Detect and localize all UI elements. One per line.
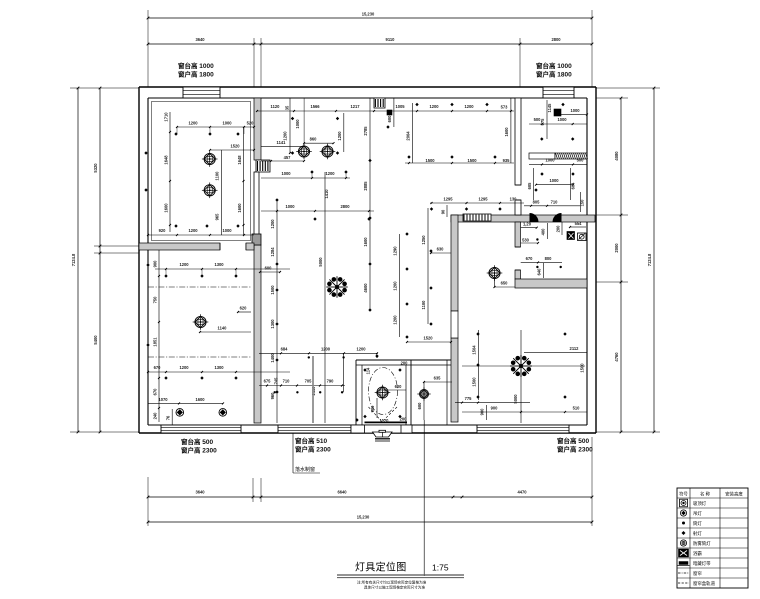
svg-text:1648: 1648 xyxy=(164,155,169,165)
svg-text:630: 630 xyxy=(437,247,445,252)
bathroom1 walls (bottom middle) xyxy=(356,360,451,425)
bath heater symbol (sq with circle) xyxy=(578,233,587,241)
dim 1140 bedroom2 xyxy=(199,326,251,334)
interior wall W4 vertical x451-458 (gray) xyxy=(451,215,458,422)
svg-text:窗台高 510: 窗台高 510 xyxy=(295,436,328,445)
svg-text:1284: 1284 xyxy=(270,247,275,257)
interior wall W2 right part xyxy=(246,243,254,250)
pendant lamp bedroom bottom-left A xyxy=(176,409,184,417)
svg-text:窗台高 500: 窗台高 500 xyxy=(181,437,214,446)
svg-text:200: 200 xyxy=(401,361,409,366)
svg-text:640: 640 xyxy=(536,268,541,276)
dim 600 xyxy=(259,266,281,274)
svg-text:775: 775 xyxy=(465,396,473,401)
dimension chain left segments 5320 / 5400 xyxy=(93,87,139,434)
svg-text:窗户高 2300: 窗户高 2300 xyxy=(295,445,331,454)
svg-text:2785: 2785 xyxy=(363,126,368,136)
svg-text:3640: 3640 xyxy=(195,490,205,495)
svg-text:710: 710 xyxy=(551,199,559,204)
dim chain hall y385 xyxy=(259,377,345,396)
dim chain bedroom2 top xyxy=(155,262,290,276)
interior wall W7 horizontal y279-288 bath suite bottom (gray) xyxy=(515,279,587,288)
ceiling lamp hall A xyxy=(296,144,312,160)
legend table xyxy=(677,488,748,588)
svg-text:1000: 1000 xyxy=(570,108,580,113)
svg-text:530: 530 xyxy=(522,238,530,243)
dims living room xyxy=(455,330,587,423)
svg-text:1300: 1300 xyxy=(214,365,224,370)
svg-text:1120: 1120 xyxy=(271,104,281,109)
electrical panel on W1 (hatched box) xyxy=(256,160,270,172)
dims shower room xyxy=(494,273,516,288)
svg-text:860: 860 xyxy=(310,137,318,142)
bath exhaust fan symbol (black sq) xyxy=(567,232,575,240)
svg-text:500: 500 xyxy=(577,158,585,163)
svg-text:1410: 1410 xyxy=(324,189,329,199)
svg-text:窗户高 1800: 窗户高 1800 xyxy=(178,70,214,79)
svg-text:安装高度: 安装高度 xyxy=(725,490,743,497)
svg-text:9110: 9110 xyxy=(386,37,396,42)
svg-text:150: 150 xyxy=(580,199,585,207)
svg-text:1120: 1120 xyxy=(380,418,390,423)
svg-text:1295: 1295 xyxy=(443,197,453,202)
top-left room inner ceiling outline xyxy=(152,102,251,241)
svg-text:1200: 1200 xyxy=(393,315,398,325)
svg-text:5000: 5000 xyxy=(318,257,323,267)
dim chain hall top y111 xyxy=(256,98,514,129)
svg-text:675: 675 xyxy=(540,118,545,126)
ceiling lamp bedroom bottom-left xyxy=(193,314,209,330)
wardrobe hatched strip top-right bedroom xyxy=(529,153,588,159)
svg-text:7124.8: 7124.8 xyxy=(71,253,76,266)
svg-text:520: 520 xyxy=(247,121,255,126)
dim vertical x277 xyxy=(270,200,277,423)
svg-text:3640: 3640 xyxy=(195,37,205,42)
svg-text:1200: 1200 xyxy=(325,171,335,176)
svg-text:1250: 1250 xyxy=(421,235,426,245)
svg-text:35: 35 xyxy=(285,105,290,110)
svg-text:名 称: 名 称 xyxy=(700,490,711,497)
interior wall W3 horizontal y215-222 (gray, top of bath suite) xyxy=(451,215,595,222)
outer wall top xyxy=(139,87,596,98)
svg-text:965: 965 xyxy=(215,213,220,221)
dimension chain top segments 3640 / 9110 / 2800 xyxy=(147,37,594,87)
window top-left (sill 1000) xyxy=(183,87,220,98)
svg-text:90: 90 xyxy=(441,209,446,214)
door swing solid quarter-circle B xyxy=(553,213,562,222)
dim 1000 right bedroom xyxy=(561,108,588,116)
svg-text:窗台高 500: 窗台高 500 xyxy=(557,436,590,445)
svg-text:920: 920 xyxy=(159,228,167,233)
window bottom-right living room (sill 500) xyxy=(477,425,569,433)
svg-text:1145: 1145 xyxy=(547,103,552,113)
svg-text:1851: 1851 xyxy=(153,337,158,347)
svg-text:4470: 4470 xyxy=(517,490,527,495)
dim chain y178 xyxy=(261,171,350,179)
notes under title xyxy=(357,580,427,590)
dim chain right bedroom y124 xyxy=(529,117,587,125)
svg-text:5320: 5320 xyxy=(93,163,98,173)
svg-text:1000: 1000 xyxy=(281,171,291,176)
svg-text:2112: 2112 xyxy=(570,346,580,351)
svg-text:1000: 1000 xyxy=(285,204,295,209)
svg-text:1500: 1500 xyxy=(467,158,477,163)
svg-text:650: 650 xyxy=(501,281,509,286)
dim inner vertical top-left room xyxy=(215,150,222,235)
svg-text:600: 600 xyxy=(387,115,392,123)
dim 90 vertical xyxy=(441,205,448,217)
dim chain bedroom2 bottom xyxy=(148,397,224,425)
dim vertical x325 long xyxy=(318,172,329,423)
dim left vertical top-left room xyxy=(164,112,172,232)
dim 630 xyxy=(430,247,451,255)
dim vertical x511 xyxy=(504,98,511,163)
label window bottom-right xyxy=(557,436,593,454)
svg-text:筒灯: 筒灯 xyxy=(693,520,702,527)
svg-text:窗台高 1000: 窗台高 1000 xyxy=(536,61,572,70)
svg-text:窗帘: 窗帘 xyxy=(693,570,702,577)
chandelier living room (snowflake) xyxy=(510,355,532,377)
svg-text:1070: 1070 xyxy=(158,397,168,402)
dim chain bedroom2 lower xyxy=(147,365,290,373)
svg-text:1200: 1200 xyxy=(179,262,189,267)
svg-text:暗藏灯带: 暗藏灯带 xyxy=(693,560,711,567)
dim chain top-left room upper xyxy=(176,121,255,135)
svg-text:200: 200 xyxy=(400,417,408,422)
svg-text:1500: 1500 xyxy=(425,158,435,163)
svg-text:1200: 1200 xyxy=(337,131,342,141)
corridor centre line x313 xyxy=(312,356,314,423)
legend symbols xyxy=(678,499,690,583)
svg-text:745: 745 xyxy=(274,377,279,385)
svg-text:1200: 1200 xyxy=(393,281,398,291)
svg-text:15,230: 15,230 xyxy=(362,12,375,17)
svg-text:1600: 1600 xyxy=(195,397,205,402)
window bottom-middle (sill 500) xyxy=(278,425,351,433)
dim chain y211 xyxy=(261,204,374,212)
svg-text:200: 200 xyxy=(556,225,561,233)
dim vertical x344 xyxy=(337,113,344,152)
svg-text:1500: 1500 xyxy=(472,377,477,387)
ceiling lamp top-left room lower xyxy=(202,183,218,199)
svg-text:935: 935 xyxy=(503,158,511,163)
ceiling lamp hall B xyxy=(320,144,336,160)
svg-text:1000: 1000 xyxy=(557,117,567,122)
dim chain right mid y164 xyxy=(529,158,587,166)
svg-text:604: 604 xyxy=(571,182,576,190)
svg-text:705: 705 xyxy=(305,379,313,384)
chandelier dining (snowflake) xyxy=(326,276,347,297)
entry door frame xyxy=(351,425,412,433)
svg-text:675: 675 xyxy=(264,379,272,384)
title 灯具定位图 1:75 xyxy=(337,561,464,578)
svg-text:6640: 6640 xyxy=(337,490,347,495)
pendant lamp bedroom bottom-left B xyxy=(219,409,227,417)
dim 860 xyxy=(303,98,334,145)
svg-text:落水制窗: 落水制窗 xyxy=(295,466,315,473)
svg-text:805: 805 xyxy=(533,199,541,204)
svg-text:1200: 1200 xyxy=(179,365,189,370)
svg-text:吸顶灯: 吸顶灯 xyxy=(693,500,707,507)
svg-text:76: 76 xyxy=(166,415,171,420)
outer wall bottom xyxy=(139,425,596,433)
svg-text:1500: 1500 xyxy=(270,285,275,295)
svg-text:1290: 1290 xyxy=(393,246,398,256)
interior wall W1 vertical lower (gray) xyxy=(252,234,261,423)
label window top-left xyxy=(178,61,214,79)
wardrobe dash-dot line B bedroom2 xyxy=(148,356,251,358)
label window bottom-middle with leader xyxy=(293,433,331,473)
svg-text:窗户高 2300: 窗户高 2300 xyxy=(181,446,217,455)
svg-text:1300: 1300 xyxy=(270,319,275,329)
svg-text:400: 400 xyxy=(540,228,545,236)
dim vertical x290 xyxy=(283,98,301,154)
dim chain y203 xyxy=(430,197,524,205)
svg-text:800: 800 xyxy=(545,256,553,261)
black box right bedroom xyxy=(547,103,561,116)
svg-text:240: 240 xyxy=(153,412,158,420)
svg-text:605: 605 xyxy=(527,182,532,190)
svg-text:114: 114 xyxy=(366,367,371,374)
ceiling lamp bathroom1 xyxy=(375,385,391,401)
svg-text:1500: 1500 xyxy=(580,363,585,373)
svg-text:注:所有有关尺寸均以现场实际定位复核为准: 注:所有有关尺寸均以现场实际定位复核为准 xyxy=(357,580,427,585)
svg-text:1000: 1000 xyxy=(545,158,555,163)
dims toilet alcove xyxy=(400,376,452,422)
outer wall left xyxy=(139,87,148,433)
entry threshold thick line xyxy=(365,421,408,423)
outer wall right xyxy=(587,87,596,433)
svg-text:4600: 4600 xyxy=(363,283,368,293)
svg-text:900: 900 xyxy=(480,408,485,416)
interior wall W5 vertical x515-521 (between dining and right bedroom) xyxy=(515,98,521,215)
dim vertical x428 xyxy=(421,208,428,324)
svg-text:1217: 1217 xyxy=(350,104,360,109)
svg-text:1200: 1200 xyxy=(321,346,331,351)
leader from entry to note xyxy=(423,420,425,576)
ceiling lamp shower room xyxy=(487,265,503,281)
label window top-right xyxy=(536,61,572,79)
svg-text:1141: 1141 xyxy=(277,140,287,145)
dim 1157 xyxy=(261,155,305,162)
svg-text:1,20: 1,20 xyxy=(523,222,532,227)
svg-text:1600: 1600 xyxy=(237,203,242,213)
interior wall W6 vertical x515-520 (gray) bath suite xyxy=(515,222,521,279)
dim verticals right mid xyxy=(527,168,585,212)
svg-text:130: 130 xyxy=(510,197,518,202)
dim 1000 right mid xyxy=(535,178,574,186)
dim vertical x399 xyxy=(393,234,400,337)
svg-text:1648: 1648 xyxy=(237,155,242,165)
svg-text:2885: 2885 xyxy=(363,181,368,191)
svg-text:1000: 1000 xyxy=(222,121,232,126)
entry porch steps xyxy=(365,425,402,441)
svg-text:灯具定位图: 灯具定位图 xyxy=(355,561,407,574)
svg-text:1100: 1100 xyxy=(421,300,426,310)
dims bathroom1 xyxy=(366,361,409,424)
svg-text:1200: 1200 xyxy=(356,346,366,351)
label window bottom-left xyxy=(181,437,217,455)
dim right vertical top-left room xyxy=(237,127,245,235)
svg-text:窗户高 1800: 窗户高 1800 xyxy=(536,70,572,79)
dim chain kitchen y163 xyxy=(405,158,514,164)
svg-text:窗户高 2300: 窗户高 2300 xyxy=(557,445,593,454)
svg-text:2800: 2800 xyxy=(340,204,350,209)
dim chain hall y353 xyxy=(259,346,378,358)
svg-text:射灯: 射灯 xyxy=(693,530,702,537)
svg-text:900: 900 xyxy=(153,260,158,268)
svg-text:1295: 1295 xyxy=(478,197,488,202)
interior wall W1 lower cased section xyxy=(254,172,259,241)
dim 620 bedroom2 xyxy=(237,306,251,314)
svg-text:4760: 4760 xyxy=(614,352,619,362)
svg-text:1566: 1566 xyxy=(310,104,320,109)
svg-text:5000: 5000 xyxy=(513,394,518,404)
svg-text:1000: 1000 xyxy=(295,119,300,129)
dimension chain right overall 7124.8 xyxy=(596,87,660,434)
svg-text:1200: 1200 xyxy=(270,219,275,229)
hatched lintel over kitchen opening xyxy=(463,214,491,221)
svg-text:600: 600 xyxy=(417,402,422,410)
svg-text:1600: 1600 xyxy=(504,127,509,137)
door swing solid quarter-circle A xyxy=(530,213,539,222)
dimension chain bottom segments 3640 / 6640 / 4470 xyxy=(147,437,594,526)
svg-text:600: 600 xyxy=(265,266,273,271)
dim vertical x547 xyxy=(540,100,547,139)
window bottom-left (sill 500) xyxy=(161,425,241,433)
svg-text:684: 684 xyxy=(281,346,289,351)
svg-text:1520: 1520 xyxy=(423,336,433,341)
svg-text:1520: 1520 xyxy=(230,144,240,149)
svg-text:吊灯: 吊灯 xyxy=(693,510,702,517)
svg-text:670: 670 xyxy=(153,388,158,396)
svg-text:1200: 1200 xyxy=(188,121,198,126)
entry door swing dashed lines xyxy=(369,407,398,422)
dim 1520 top-left room xyxy=(209,144,255,152)
dimension chain top overall 15230 xyxy=(147,10,594,87)
svg-text:1:75: 1:75 xyxy=(432,563,449,573)
svg-text:防雾筒灯: 防雾筒灯 xyxy=(693,540,711,547)
dim chain right mid y206 xyxy=(524,199,580,207)
svg-text:457: 457 xyxy=(284,155,292,160)
svg-text:符号: 符号 xyxy=(679,490,688,497)
svg-text:900: 900 xyxy=(370,405,375,413)
dim vertical x344 lower xyxy=(343,353,345,392)
svg-text:浴霸: 浴霸 xyxy=(693,550,702,557)
svg-text:5400: 5400 xyxy=(93,335,98,345)
dim tick near entry xyxy=(376,352,378,357)
svg-text:1100: 1100 xyxy=(215,171,220,181)
dim vertical bedroom2 left xyxy=(153,250,161,422)
door opening in W2 (frame lines) xyxy=(220,243,246,250)
svg-text:620: 620 xyxy=(240,306,248,311)
svg-text:1504: 1504 xyxy=(472,345,477,355)
svg-text:1000: 1000 xyxy=(549,178,559,183)
svg-text:窗台高 1000: 窗台高 1000 xyxy=(178,61,214,70)
svg-text:1600: 1600 xyxy=(363,237,368,247)
electrical panel top wall (hatched) xyxy=(374,98,392,115)
svg-text:2000: 2000 xyxy=(614,243,619,253)
svg-text:1200: 1200 xyxy=(464,104,474,109)
svg-text:7124.8: 7124.8 xyxy=(647,253,652,266)
svg-text:1200: 1200 xyxy=(188,228,198,233)
dimension chain right segments 4080 / 2000 / 4760 xyxy=(596,97,660,434)
svg-text:2800: 2800 xyxy=(551,37,561,42)
svg-text:750: 750 xyxy=(153,296,158,304)
svg-text:1200: 1200 xyxy=(429,104,439,109)
interior wall W2 horizontal y241-250 left part xyxy=(139,243,220,250)
svg-text:2004: 2004 xyxy=(406,131,411,141)
svg-text:1005: 1005 xyxy=(395,104,405,109)
dims bath3 xyxy=(521,221,586,278)
dimension chain bottom overall 15230 xyxy=(147,515,594,524)
svg-text:635: 635 xyxy=(434,376,442,381)
svg-text:510: 510 xyxy=(573,406,581,411)
svg-text:1600: 1600 xyxy=(164,203,169,213)
svg-text:900: 900 xyxy=(491,406,499,411)
svg-text:具体尺寸以施工现场核定实际尺寸为准: 具体尺寸以施工现场核定实际尺寸为准 xyxy=(364,585,425,590)
svg-text:1400: 1400 xyxy=(270,353,275,363)
wardrobe dash-dot line A bedroom2 xyxy=(148,286,251,288)
dim 1520 hall xyxy=(406,336,452,344)
bathroom1 ceiling oval (dash-dot) xyxy=(369,368,398,415)
svg-text:1140: 1140 xyxy=(218,326,228,331)
svg-text:1300: 1300 xyxy=(214,262,224,267)
svg-text:15,230: 15,230 xyxy=(357,515,370,520)
svg-text:1000: 1000 xyxy=(222,228,232,233)
interior wall W1 vertical x254-261 (gray) upper xyxy=(254,98,261,160)
svg-text:554: 554 xyxy=(575,221,583,226)
ceiling lamp toilet alcove xyxy=(417,387,430,400)
svg-text:4080: 4080 xyxy=(614,151,619,161)
dim 1141 xyxy=(261,140,304,147)
svg-text:窗帘盒轨道: 窗帘盒轨道 xyxy=(693,580,716,587)
ceiling lamp top-left room upper xyxy=(202,151,218,167)
dim vertical kitchen x412 xyxy=(406,103,413,163)
svg-text:600: 600 xyxy=(395,384,403,389)
svg-text:710: 710 xyxy=(283,379,291,384)
svg-text:1710: 1710 xyxy=(164,112,169,122)
svg-text:670: 670 xyxy=(154,365,162,370)
dimension chain left overall 7124.8 xyxy=(70,87,139,434)
downlight diamond dots xyxy=(144,103,574,422)
svg-text:670: 670 xyxy=(526,256,534,261)
svg-text:573: 573 xyxy=(501,105,509,110)
dim vertical x370 xyxy=(363,98,370,310)
svg-text:790: 790 xyxy=(327,379,335,384)
window top-right (sill 1000) xyxy=(543,87,574,98)
dim chain top-left room bottom xyxy=(147,228,254,236)
